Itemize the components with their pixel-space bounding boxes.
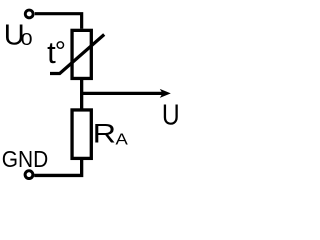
node wire to U arrow — [82, 92, 164, 95]
thermistor diagonal stroke with foot — [50, 35, 104, 74]
resistor RA body — [72, 110, 91, 158]
svg-text:°: ° — [55, 36, 66, 67]
thermistor RT body — [72, 30, 91, 78]
wire from U0 terminal to thermistor top — [35, 14, 82, 29]
svg-text:U: U — [162, 100, 180, 132]
svg-text:GND: GND — [2, 146, 49, 172]
terminal GND circle — [25, 171, 33, 179]
arrowhead of U — [160, 89, 171, 98]
wire RA bottom to GND rail — [34, 158, 81, 175]
terminal U0 (input terminal circle) — [25, 10, 33, 18]
svg-text:0: 0 — [21, 29, 33, 49]
svg-text:A: A — [116, 132, 129, 149]
wire thermistor to RA — [80, 79, 83, 110]
svg-text:R: R — [93, 119, 116, 149]
